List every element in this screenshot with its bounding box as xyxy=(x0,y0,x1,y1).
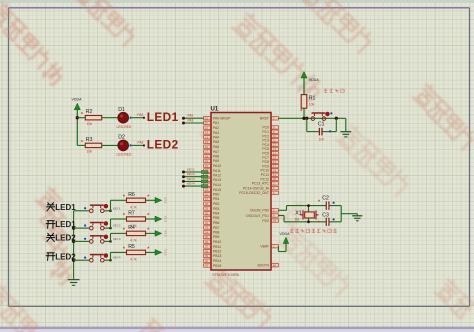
svg-text:VBAT: VBAT xyxy=(260,245,269,249)
svg-text:D2: D2 xyxy=(118,135,125,141)
svg-text:LED-RED: LED-RED xyxy=(117,125,132,129)
svg-text:C2: C2 xyxy=(322,195,329,201)
svg-text:PC14-OSC32_IN: PC14-OSC32_IN xyxy=(243,186,270,190)
svg-text:PA15: PA15 xyxy=(213,188,221,192)
svg-text:10k: 10k xyxy=(87,122,93,126)
svg-text:R6: R6 xyxy=(128,192,135,198)
svg-text:PB15: PB15 xyxy=(213,264,221,268)
svg-text:PB0: PB0 xyxy=(213,193,220,197)
svg-text:PA13: PA13 xyxy=(213,178,221,182)
svg-text:PA14: PA14 xyxy=(213,183,221,187)
svg-text:PA2: PA2 xyxy=(137,113,143,117)
svg-text:4.7k: 4.7k xyxy=(130,239,137,243)
svg-text:R1: R1 xyxy=(309,96,316,102)
svg-text:R3: R3 xyxy=(86,137,93,143)
svg-text:VDDA: VDDA xyxy=(72,98,83,102)
svg-text:VDDA: VDDA xyxy=(309,78,320,82)
svg-text:KEY4: KEY4 xyxy=(113,256,121,260)
svg-text:STM32F103R6: STM32F103R6 xyxy=(212,272,240,277)
svg-text:U1: U1 xyxy=(211,107,219,113)
svg-text:10k: 10k xyxy=(309,103,315,107)
svg-text:4.7k: 4.7k xyxy=(130,206,137,210)
svg-text:PB9: PB9 xyxy=(213,235,220,239)
svg-text:X1: X1 xyxy=(295,210,301,216)
svg-text:PA2: PA2 xyxy=(188,114,194,118)
svg-text:NRST: NRST xyxy=(260,117,269,121)
svg-text:PA0-WKUP: PA0-WKUP xyxy=(213,117,231,121)
svg-text:C1: C1 xyxy=(318,122,325,128)
svg-text:PA3: PA3 xyxy=(213,131,219,135)
svg-text:1nF: 1nF xyxy=(319,137,325,141)
svg-text:PC15-OSC32_OUT: PC15-OSC32_OUT xyxy=(239,191,269,195)
svg-text:PB1: PB1 xyxy=(213,197,220,201)
svg-text:PA11: PA11 xyxy=(213,169,221,173)
svg-text:LED2: LED2 xyxy=(147,138,179,152)
svg-text:PA1: PA1 xyxy=(213,121,219,125)
svg-text:PB12: PB12 xyxy=(213,250,221,254)
svg-text:C3: C3 xyxy=(322,213,329,219)
svg-text:OSCIN_PD0: OSCIN_PD0 xyxy=(250,209,269,213)
svg-text:OSCOUT_PD1: OSCOUT_PD1 xyxy=(246,214,269,218)
svg-text:BOOT0: BOOT0 xyxy=(258,264,270,268)
svg-text:10k: 10k xyxy=(87,150,93,154)
svg-text:PB5: PB5 xyxy=(213,216,220,220)
svg-text:V3.3: V3.3 xyxy=(164,230,168,237)
svg-text:KEY3: KEY3 xyxy=(113,237,121,241)
svg-text:PB8: PB8 xyxy=(213,231,220,235)
svg-text:R5: R5 xyxy=(128,244,135,250)
svg-text:PA4: PA4 xyxy=(213,136,219,140)
svg-text:LED2: LED2 xyxy=(55,234,76,243)
svg-text:PA12: PA12 xyxy=(213,174,221,178)
svg-text:KEY3: KEY3 xyxy=(187,177,195,181)
svg-text:PA7: PA7 xyxy=(213,150,219,154)
svg-text:KEY4: KEY4 xyxy=(187,182,195,186)
svg-text:PA8: PA8 xyxy=(213,155,219,159)
svg-text:D1: D1 xyxy=(118,107,125,113)
svg-text:8M: 8M xyxy=(295,218,300,222)
svg-text:PB2: PB2 xyxy=(213,202,220,206)
svg-text:KEY1: KEY1 xyxy=(113,206,121,210)
svg-text:PD2: PD2 xyxy=(262,219,269,223)
svg-text:PB3: PB3 xyxy=(213,207,220,211)
svg-text:PB14: PB14 xyxy=(213,259,221,263)
svg-text:PA2: PA2 xyxy=(213,126,219,130)
svg-text:PC13_RTC: PC13_RTC xyxy=(252,182,270,186)
svg-text:PB13: PB13 xyxy=(213,254,221,258)
svg-text:LED1: LED1 xyxy=(55,203,76,212)
svg-text:V3.3: V3.3 xyxy=(164,216,168,223)
svg-text:R4: R4 xyxy=(128,225,135,231)
svg-text:R2: R2 xyxy=(86,109,93,115)
svg-text:PC12: PC12 xyxy=(261,177,270,181)
svg-text:PB10: PB10 xyxy=(213,240,221,244)
svg-text:PB7: PB7 xyxy=(213,226,220,230)
svg-text:KEY1: KEY1 xyxy=(187,168,195,172)
svg-text:PB4: PB4 xyxy=(213,212,220,216)
svg-text:PB6: PB6 xyxy=(213,221,220,225)
svg-text:R7: R7 xyxy=(128,211,135,217)
svg-text:PA3: PA3 xyxy=(188,118,194,122)
svg-text:PA3: PA3 xyxy=(137,141,143,145)
svg-text:KEY2: KEY2 xyxy=(113,224,121,228)
svg-text:LED1: LED1 xyxy=(147,110,179,124)
svg-text:LED-RED: LED-RED xyxy=(117,153,132,157)
svg-text:PA6: PA6 xyxy=(213,145,219,149)
svg-text:KEY2: KEY2 xyxy=(187,172,195,176)
svg-text:PA10: PA10 xyxy=(213,164,221,168)
svg-text:PB11: PB11 xyxy=(213,245,221,249)
svg-text:4.7k: 4.7k xyxy=(130,258,137,262)
svg-text:V3.3: V3.3 xyxy=(164,197,168,204)
svg-text:PA9: PA9 xyxy=(213,159,219,163)
svg-text:PA5: PA5 xyxy=(213,140,219,144)
svg-text:LED2: LED2 xyxy=(55,252,76,261)
svg-text:VDDA: VDDA xyxy=(280,232,291,236)
svg-text:V3.3: V3.3 xyxy=(164,249,168,256)
svg-text:LED1: LED1 xyxy=(55,220,76,229)
